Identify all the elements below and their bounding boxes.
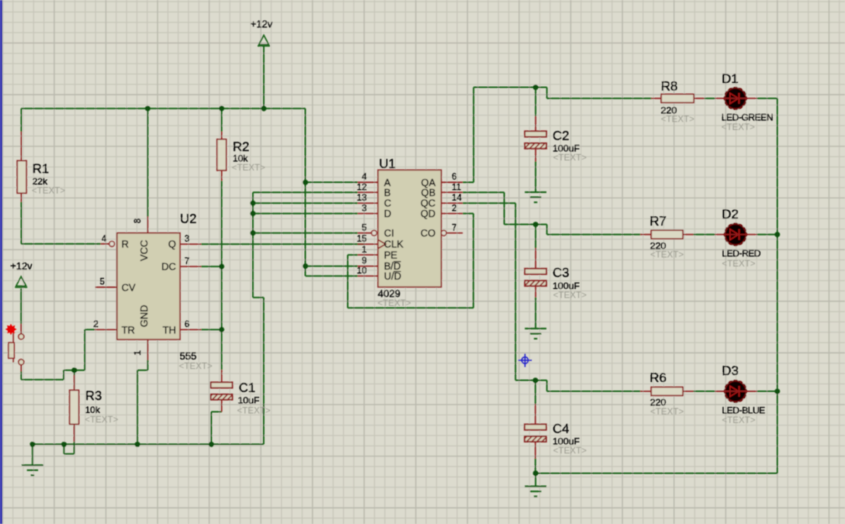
svg-text:CO: CO (421, 229, 436, 240)
svg-text:VCC: VCC (140, 240, 151, 261)
svg-text:TR: TR (122, 326, 135, 337)
svg-text:TH: TH (163, 326, 176, 337)
svg-text:R3: R3 (85, 388, 102, 403)
svg-text:1: 1 (362, 244, 367, 254)
svg-text:U2: U2 (180, 211, 197, 226)
svg-text:GND: GND (140, 305, 151, 327)
svg-text:LED-BLUE: LED-BLUE (722, 405, 765, 415)
svg-text:C4: C4 (553, 421, 570, 436)
svg-text:5: 5 (362, 222, 367, 232)
svg-text:CV: CV (122, 283, 136, 294)
svg-text:D3: D3 (722, 363, 739, 378)
svg-text:<TEXT>: <TEXT> (722, 415, 756, 425)
svg-text:6: 6 (452, 172, 457, 182)
svg-text:1: 1 (133, 350, 143, 355)
svg-text:<TEXT>: <TEXT> (32, 186, 66, 196)
svg-text:+12v: +12v (251, 20, 273, 31)
svg-text:9: 9 (362, 256, 367, 266)
svg-text:11: 11 (452, 182, 461, 192)
svg-text:LED-GREEN: LED-GREEN (721, 113, 773, 123)
svg-text:3: 3 (185, 234, 190, 244)
svg-text:+12v: +12v (10, 262, 32, 273)
svg-text:10k: 10k (85, 405, 100, 415)
svg-text:8: 8 (133, 218, 143, 223)
svg-text:<TEXT>: <TEXT> (650, 250, 684, 260)
svg-text:6: 6 (185, 319, 190, 329)
svg-text:<TEXT>: <TEXT> (661, 114, 695, 124)
svg-text:CLK: CLK (384, 240, 404, 251)
svg-text:<TEXT>: <TEXT> (232, 163, 266, 173)
svg-text:Q: Q (168, 240, 176, 251)
svg-text:2: 2 (93, 319, 98, 329)
svg-text:D2: D2 (722, 206, 739, 221)
svg-text:C1: C1 (239, 380, 256, 395)
svg-text:QD: QD (421, 209, 436, 220)
svg-text:15: 15 (357, 234, 367, 244)
svg-text:<TEXT>: <TEXT> (179, 361, 213, 371)
svg-text:D1: D1 (722, 71, 739, 86)
svg-text:B: B (384, 188, 391, 199)
svg-text:4: 4 (362, 172, 367, 182)
svg-text:C2: C2 (553, 128, 570, 143)
svg-text:R: R (122, 240, 129, 251)
svg-text:U/D: U/D (384, 272, 401, 283)
svg-text:DC: DC (162, 262, 176, 273)
svg-text:<TEXT>: <TEXT> (650, 406, 684, 416)
svg-text:R6: R6 (650, 370, 667, 385)
svg-text:3: 3 (362, 203, 367, 213)
svg-text:U1: U1 (379, 156, 396, 171)
svg-text:<TEXT>: <TEXT> (237, 406, 271, 416)
svg-text:R1: R1 (32, 161, 49, 176)
svg-text:4: 4 (101, 233, 106, 243)
svg-text:R7: R7 (650, 213, 667, 228)
svg-text:C3: C3 (553, 265, 570, 280)
svg-text:QB: QB (421, 188, 436, 199)
svg-text:10: 10 (357, 265, 367, 275)
svg-text:<TEXT>: <TEXT> (553, 153, 587, 163)
svg-text:CI: CI (384, 229, 394, 240)
svg-text:7: 7 (185, 256, 190, 266)
svg-text:7: 7 (452, 222, 457, 232)
svg-text:C: C (384, 199, 391, 210)
svg-text:R8: R8 (661, 79, 678, 94)
svg-text:2: 2 (452, 203, 457, 213)
svg-text:<TEXT>: <TEXT> (721, 122, 755, 132)
svg-text:<TEXT>: <TEXT> (553, 446, 587, 456)
svg-text:LED-RED: LED-RED (722, 249, 761, 259)
svg-text:PE: PE (384, 251, 398, 262)
svg-text:<TEXT>: <TEXT> (722, 258, 756, 268)
svg-text:D: D (384, 209, 391, 220)
svg-text:5: 5 (100, 277, 105, 287)
svg-text:13: 13 (357, 193, 367, 203)
svg-text:<TEXT>: <TEXT> (85, 415, 119, 425)
svg-text:QC: QC (421, 199, 436, 210)
svg-text:12: 12 (357, 182, 367, 192)
svg-text:<TEXT>: <TEXT> (553, 290, 587, 300)
svg-text:<TEXT>: <TEXT> (378, 298, 412, 308)
svg-text:14: 14 (452, 193, 462, 203)
svg-text:R2: R2 (233, 139, 250, 154)
